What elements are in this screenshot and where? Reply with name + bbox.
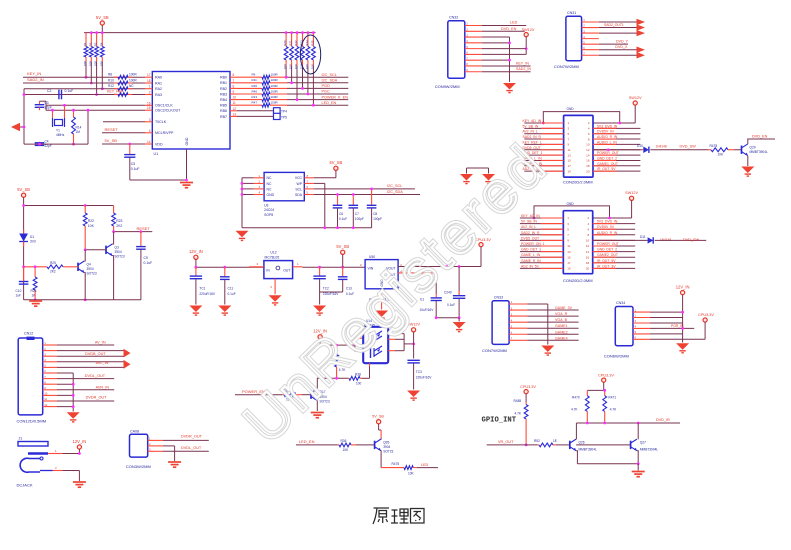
svg-text:12V_IN: 12V_IN xyxy=(676,284,690,289)
pin 16 CON20D-1 right xyxy=(593,159,640,161)
pin 10 RB4 xyxy=(230,99,237,101)
svg-text:10K: 10K xyxy=(99,61,103,66)
wire RN3 down xyxy=(296,66,298,100)
svg-text:10: 10 xyxy=(586,239,590,243)
svg-text:16: 16 xyxy=(586,159,590,163)
svg-text:SOT23: SOT23 xyxy=(115,255,125,259)
wire pin1 stub left block2 xyxy=(534,217,563,219)
svg-text:CON6W/2MM: CON6W/2MM xyxy=(604,353,629,358)
pin 3 CN33 xyxy=(509,315,527,317)
wire CN34 pin4 POR_IR xyxy=(650,327,694,329)
pin 1 CN31 xyxy=(582,21,599,23)
connector CN34 body xyxy=(615,307,633,346)
pin 17 CON20D-1 left xyxy=(524,165,563,167)
svg-text:DVD_IR: DVD_IR xyxy=(656,418,670,422)
svg-text:10K: 10K xyxy=(343,448,350,452)
svg-text:TP4: TP4 xyxy=(281,109,287,113)
transistor Q27 MMBT3904L xyxy=(631,439,637,451)
svg-text:GAME2_OUT: GAME2_OUT xyxy=(597,253,618,257)
pin 7 RB1 xyxy=(230,82,237,84)
svg-text:C6: C6 xyxy=(339,212,343,216)
pin 2 RA3 xyxy=(145,94,152,96)
wire 12V rail xyxy=(196,266,264,268)
wire LED_EN xyxy=(296,444,338,446)
resistor R23 2K2 xyxy=(112,206,116,232)
off-page arrow CN12 rows2-3 xyxy=(124,349,131,358)
pin 6 CN34 xyxy=(633,338,650,340)
pin 7 CN32 xyxy=(465,59,482,61)
power SW12V at CN32 xyxy=(522,28,535,37)
wire R9 to net label xyxy=(287,76,348,78)
svg-text:NC: NC xyxy=(267,187,272,191)
pin 16 CON20D-2 right xyxy=(593,256,636,258)
power CPU3.3V at CN34 xyxy=(698,313,714,322)
svg-text:DVD5V_IN: DVD5V_IN xyxy=(597,225,614,229)
wire CA08 pin2 xyxy=(163,445,175,447)
resistor RN3 vertical xyxy=(295,33,299,66)
resistor R12 series xyxy=(114,87,132,91)
svg-text:LED_EN: LED_EN xyxy=(299,439,315,444)
wire RN4 down xyxy=(302,66,304,88)
svg-text:7: 7 xyxy=(233,79,235,83)
pin 9 CN12 xyxy=(43,389,57,391)
wire 5V_SB drop xyxy=(342,254,344,267)
svg-text:R40: R40 xyxy=(252,89,258,93)
junction rail xyxy=(307,31,310,34)
wire crystal pin2 up xyxy=(64,105,66,118)
wire CN12 pin5 AVL_IN xyxy=(57,366,124,368)
pin 17 CON20D-2 left xyxy=(520,262,563,264)
pin 5 CN32 xyxy=(465,48,482,50)
resistor R471 4.7K xyxy=(603,390,607,423)
svg-text:IR_OUT_3V: IR_OUT_3V xyxy=(597,264,616,268)
power SW12V block1 xyxy=(629,96,642,105)
svg-text:2K2: 2K2 xyxy=(116,224,122,228)
wire SW12V down to pin6 xyxy=(525,37,527,55)
junction C2 row xyxy=(23,93,26,96)
wire RB7 to TP5 xyxy=(237,115,274,117)
svg-text:6: 6 xyxy=(233,73,235,77)
wire SDA xyxy=(314,194,420,196)
svg-text:220uF/16V: 220uF/16V xyxy=(416,375,432,379)
wire R38 to U14 pin xyxy=(362,377,370,379)
svg-text:SDA: SDA xyxy=(295,193,303,197)
svg-text:GND_DET_1: GND_DET_1 xyxy=(521,248,541,252)
svg-text:R10: R10 xyxy=(108,78,114,82)
svg-text:CN12: CN12 xyxy=(24,331,33,335)
pin 18 CON20D-1 right xyxy=(593,165,640,167)
wire CN33 pin6 xyxy=(527,333,578,335)
pin 10 CON20D-1 right xyxy=(593,143,640,145)
wire R40 to net label xyxy=(287,93,348,95)
svg-text:1: 1 xyxy=(149,85,151,89)
pin 6 CN31 xyxy=(582,49,599,51)
pin 15 CON20D-2 left xyxy=(520,256,563,258)
wire RN6 down xyxy=(312,66,314,105)
pin 4 MCLR/VPP xyxy=(145,132,152,134)
transistor Q35 3904 SOT23 xyxy=(375,439,381,451)
wire CN12 gnd bus xyxy=(72,373,74,412)
svg-text:12: 12 xyxy=(586,148,590,152)
connector CN29 CON20D body block2 xyxy=(563,211,592,274)
resistor R47 100R xyxy=(237,103,287,107)
resistor R14 xyxy=(72,110,76,144)
svg-text:CON7W/2MM: CON7W/2MM xyxy=(554,64,579,69)
pin 2 CN33 xyxy=(509,309,527,311)
svg-text:Q27: Q27 xyxy=(640,440,646,444)
svg-text:DVD_EN: DVD_EN xyxy=(752,135,768,139)
transistor Q4 3904 SOT23 xyxy=(78,261,84,273)
svg-text:15: 15 xyxy=(568,159,572,163)
svg-text:CN32: CN32 xyxy=(449,16,458,20)
pin 14 CON20D-1 right xyxy=(593,154,640,156)
resistor RN1 vertical xyxy=(284,33,288,66)
wire CN12 pin4 xyxy=(57,361,124,363)
svg-text:100R: 100R xyxy=(271,101,279,105)
ground MCU xyxy=(180,183,193,188)
svg-text:CPU3.3V: CPU3.3V xyxy=(698,313,714,317)
junction rail xyxy=(101,31,104,34)
svg-text:SW12V: SW12V xyxy=(625,191,638,195)
junction R3 to row xyxy=(95,93,98,96)
pin 1 NC U3 xyxy=(254,177,264,179)
pin 1 CN32 xyxy=(465,25,482,27)
pin 2 NC U3 xyxy=(254,182,264,184)
svg-text:CPU3.3V: CPU3.3V xyxy=(520,385,536,389)
svg-text:0.1uF: 0.1uF xyxy=(144,261,153,265)
wire RESET net xyxy=(114,231,153,233)
svg-text:14: 14 xyxy=(586,250,590,254)
pin 7 CN12 xyxy=(43,378,57,380)
svg-text:I2C_SDA: I2C_SDA xyxy=(322,79,338,83)
junction pin5 row xyxy=(525,47,528,50)
svg-text:U3: U3 xyxy=(264,203,268,207)
MCU U1 body xyxy=(152,72,230,150)
pin 2 CA08 xyxy=(148,445,163,447)
svg-text:5V_SB_IN: 5V_SB_IN xyxy=(523,124,539,128)
capacitor TC3 220uF/16V xyxy=(407,360,419,363)
svg-text:18: 18 xyxy=(586,164,590,168)
off-page arrow CN31 pin6 xyxy=(637,47,646,53)
resistor RN4 vertical xyxy=(301,33,305,66)
wire CN31 pin6 DVD_X xyxy=(599,49,637,51)
capacitor C13 0.1uF xyxy=(342,267,344,276)
svg-text:R25: R25 xyxy=(310,40,314,46)
svg-text:R12: R12 xyxy=(108,84,114,88)
power CPU3.3V at R485 xyxy=(520,385,536,394)
svg-text:SOP8: SOP8 xyxy=(264,213,273,217)
junction loop right xyxy=(618,122,621,125)
svg-text:SAD2_IN_R: SAD2_IN_R xyxy=(521,231,540,235)
svg-text:R24: R24 xyxy=(305,40,309,46)
wire CN34 pin6 CPU3.3V xyxy=(650,338,705,340)
svg-text:R470: R470 xyxy=(572,396,580,400)
svg-text:10: 10 xyxy=(233,96,237,100)
svg-text:11: 11 xyxy=(567,244,570,248)
capacitor C11 0.1uF xyxy=(224,267,226,276)
ground U3 xyxy=(236,231,249,241)
svg-text:Y1: Y1 xyxy=(56,129,60,133)
wire CN32 pin5 xyxy=(482,48,526,50)
svg-text:VGA_R: VGA_R xyxy=(555,312,568,316)
svg-text:100pF: 100pF xyxy=(355,217,364,221)
pin 1 U12 OUT xyxy=(293,266,303,268)
pin 4 CN12 xyxy=(43,361,57,363)
wire R478 to Q29 base xyxy=(734,149,742,151)
svg-text:100R: 100R xyxy=(271,95,279,99)
wire top rail 5V_SB xyxy=(84,32,316,34)
resistor R25 2K2 xyxy=(24,265,78,269)
svg-text:NC: NC xyxy=(267,182,272,186)
wire loop block2 xyxy=(534,206,610,218)
wire CN12 pin7 DVDL_OUT xyxy=(57,378,114,380)
wire CN33 pin7 xyxy=(527,339,578,341)
svg-text:220uF/16V: 220uF/16V xyxy=(199,292,215,296)
power 12V_IN at J1 xyxy=(73,439,87,449)
svg-text:J1: J1 xyxy=(19,437,23,441)
wire 12V down xyxy=(195,259,197,267)
svg-text:20: 20 xyxy=(586,169,590,173)
pin 5 CN33 xyxy=(509,327,527,329)
connector CN12 body xyxy=(18,338,43,415)
pin 20 CON20D-1 right xyxy=(593,170,640,172)
power 12V_IN regulator xyxy=(189,249,203,259)
wire RA3 row KEY_REF xyxy=(24,94,145,96)
wire to D10 xyxy=(593,149,642,151)
wire RA1 row SAD2_IN xyxy=(23,82,145,84)
svg-text:AUDIO_L_IN: AUDIO_L_IN xyxy=(597,140,617,144)
pin 18 CON20D-2 right xyxy=(593,262,636,264)
power 5V_SB at Q35 xyxy=(372,414,384,424)
wire R38 row xyxy=(317,377,348,379)
svg-text:IN: IN xyxy=(266,269,270,273)
svg-text:13: 13 xyxy=(568,153,572,157)
wire CN34 pin2 xyxy=(650,317,683,319)
wire CN32 pin9 SAD2_IN xyxy=(482,71,531,73)
svg-text:D11: D11 xyxy=(640,235,646,239)
svg-text:MC78L05: MC78L05 xyxy=(265,255,280,259)
junction to row xyxy=(290,81,293,84)
wire DVD_SW block2 xyxy=(655,239,707,241)
pin 11 RB5 xyxy=(230,104,237,106)
pin 4 CN34 xyxy=(633,327,650,329)
wire Q26 collector xyxy=(575,423,577,439)
svg-text:MMBT3904L: MMBT3904L xyxy=(750,150,768,154)
svg-text:DCJACK: DCJACK xyxy=(17,483,33,488)
svg-text:0.1uF: 0.1uF xyxy=(65,89,74,93)
svg-text:13: 13 xyxy=(567,250,571,254)
wire POWER_EN xyxy=(235,394,282,396)
svg-text:17: 17 xyxy=(567,261,571,265)
wire Q4 emitter xyxy=(83,273,86,300)
wire jog xyxy=(379,429,382,431)
resistor R9 100R xyxy=(237,75,287,79)
wire RN2 down xyxy=(291,66,293,83)
svg-text:TC1: TC1 xyxy=(199,286,205,290)
junction C5 xyxy=(128,143,131,146)
svg-text:5V_SB: 5V_SB xyxy=(17,187,30,192)
wire osc left closure xyxy=(45,105,47,110)
pin 4 GND U3 xyxy=(254,194,264,196)
svg-text:10K: 10K xyxy=(94,61,98,66)
wire 12V_IN to U14 xyxy=(320,344,355,346)
resistor R4 pull-up xyxy=(100,33,104,62)
svg-text:U1: U1 xyxy=(154,152,159,156)
svg-text:C240: C240 xyxy=(444,290,452,294)
capacitor C9 xyxy=(140,232,142,247)
svg-text:100R: 100R xyxy=(129,73,137,77)
svg-text:R485: R485 xyxy=(514,399,522,403)
ground CN12 xyxy=(67,412,80,422)
svg-text:C2: C2 xyxy=(47,89,51,93)
wire C4 bottom row xyxy=(24,143,88,145)
wire to Q35 base xyxy=(356,444,375,446)
pin 1 RA2 xyxy=(145,88,152,90)
wire emitter rail xyxy=(577,463,638,465)
pin 9 RB3 xyxy=(230,93,237,95)
connector CN33 body xyxy=(492,301,509,345)
svg-text:R471: R471 xyxy=(608,396,616,400)
svg-text:0.1uF: 0.1uF xyxy=(228,292,236,296)
pin 5 CN31 xyxy=(582,43,599,45)
connector CA08 body xyxy=(130,434,148,457)
wire R470 R471 top rail xyxy=(587,389,604,391)
ground CN33 xyxy=(541,346,554,356)
pin 7 WP U3 xyxy=(304,182,314,184)
wire E1 C240 gnd rail xyxy=(436,317,459,319)
wire to SW12V node xyxy=(404,343,414,345)
svg-text:DVDR_OUT: DVDR_OUT xyxy=(181,434,203,438)
svg-text:100: 100 xyxy=(356,381,362,385)
resistor RN6 vertical xyxy=(312,33,316,66)
watermark UnRegistered xyxy=(232,132,560,456)
svg-text:Q3: Q3 xyxy=(115,245,119,249)
svg-text:R13: R13 xyxy=(252,95,258,99)
pin 4 CN32 xyxy=(465,42,482,44)
svg-text:VCC: VCC xyxy=(295,176,303,180)
wire pin2 row block1 xyxy=(593,122,635,124)
wire CPU3.3V drop xyxy=(603,382,605,390)
pin 1 CON20D-2 left xyxy=(520,217,563,219)
svg-text:R1: R1 xyxy=(83,42,87,46)
wire to Q35 collector xyxy=(380,430,382,438)
svg-text:RA3: RA3 xyxy=(155,93,162,97)
svg-text:100R: 100R xyxy=(271,78,279,82)
pin 6 CN32 xyxy=(465,53,482,55)
wire CN32 pin8 KEY_IN xyxy=(482,65,531,67)
svg-text:R2: R2 xyxy=(88,42,92,46)
pin 2 CN34 xyxy=(633,317,650,319)
svg-text:GND: GND xyxy=(185,137,189,145)
svg-text:CPU3.3V: CPU3.3V xyxy=(598,374,614,378)
svg-text:R14: R14 xyxy=(76,126,82,130)
capacitor C8 100pF xyxy=(371,189,373,205)
svg-text:TP5: TP5 xyxy=(281,116,287,120)
svg-text:GAME1: GAME1 xyxy=(555,324,568,328)
wire CPU3.3V to R485 xyxy=(525,394,527,402)
wire E1 column xyxy=(435,273,437,294)
svg-text:10K: 10K xyxy=(408,471,415,475)
wire CN31 pin2 SAD2_OUT1 xyxy=(599,27,637,29)
svg-text:3904: 3904 xyxy=(87,267,94,271)
resistor R36 100R xyxy=(237,87,287,91)
power 5V_SB at U3 xyxy=(330,160,343,170)
wire WP xyxy=(314,182,325,184)
wire U14 right pins xyxy=(388,333,395,335)
wire R11 to net label xyxy=(287,82,348,84)
svg-text:R3: R3 xyxy=(94,42,98,46)
svg-text:D1: D1 xyxy=(30,235,34,239)
resistor R10 series xyxy=(114,81,132,85)
svg-text:LED: LED xyxy=(421,463,429,467)
svg-text:GAME_L_IN: GAME_L_IN xyxy=(521,253,541,257)
power 5V_SB (MCU pull-up rail) xyxy=(96,15,109,25)
wire Q27 emitter xyxy=(637,451,638,464)
wire C5 to gnd rail xyxy=(130,179,187,181)
svg-text:R47: R47 xyxy=(252,101,258,105)
wire CN33 pin3 xyxy=(527,315,578,317)
svg-text:R52: R52 xyxy=(534,439,540,443)
wire top rail reset xyxy=(24,205,114,207)
svg-text:C3: C3 xyxy=(45,101,49,105)
pin 8 CON20D-2 right xyxy=(593,234,636,236)
resistor R474 10K xyxy=(282,393,302,397)
wire arrow stub xyxy=(20,126,24,128)
svg-text:R26: R26 xyxy=(31,289,37,293)
svg-text:17: 17 xyxy=(568,164,572,168)
ground U50 xyxy=(375,311,388,321)
pin 7 CON20D-1 left xyxy=(524,138,563,140)
svg-text:GND: GND xyxy=(567,202,575,206)
svg-text:U50: U50 xyxy=(369,255,375,259)
wire U50 gnd pin xyxy=(381,289,383,310)
transistor Q17 3904 SOT23 xyxy=(311,389,317,401)
resistor R11 100R xyxy=(237,81,287,85)
svg-text:5V3_DVD_IN: 5V3_DVD_IN xyxy=(597,220,618,224)
resistor R2 pull-up xyxy=(89,33,93,62)
wire CN32 pin2 DVD_EN xyxy=(482,30,525,32)
wire Q17 collector xyxy=(316,378,318,389)
junction R4 to row xyxy=(101,87,104,90)
svg-text:GAME_R_IN: GAME_R_IN xyxy=(521,259,541,263)
pin 6 CN33 xyxy=(509,333,527,335)
svg-text:C10: C10 xyxy=(16,289,22,293)
off-page arrow CN12 rows4-5 xyxy=(124,360,131,369)
IC U3 24C04 body xyxy=(264,172,304,200)
wire CN34 pin1 xyxy=(650,311,683,313)
pin 5 CON20D-2 left xyxy=(520,228,563,230)
svg-text:GAME4: GAME4 xyxy=(555,336,568,340)
svg-text:DVD_X: DVD_X xyxy=(615,45,628,49)
svg-text:RB1: RB1 xyxy=(220,81,227,85)
svg-text:SAD2_OUT1: SAD2_OUT1 xyxy=(604,23,624,27)
wire OSC2 row xyxy=(46,109,145,111)
svg-text:WP: WP xyxy=(297,182,303,186)
svg-text:GND_DET_2: GND_DET_2 xyxy=(597,156,617,160)
svg-text:POWER_OUT: POWER_OUT xyxy=(597,242,619,246)
svg-text:SAD2_IN: SAD2_IN xyxy=(516,67,531,71)
svg-text:100R: 100R xyxy=(271,73,279,77)
wire CN32 pin1 LED xyxy=(482,25,526,27)
svg-text:12V_IN: 12V_IN xyxy=(189,249,203,254)
svg-text:R11: R11 xyxy=(252,78,258,82)
svg-text:SOT23: SOT23 xyxy=(383,450,393,454)
junction to row xyxy=(285,76,288,79)
wire R13 to net label xyxy=(287,99,348,101)
svg-text:12V_IN: 12V_IN xyxy=(73,439,87,444)
power 5V_SB at regulator out xyxy=(336,244,349,254)
svg-text:AV2_IN_L: AV2_IN_L xyxy=(521,225,536,229)
